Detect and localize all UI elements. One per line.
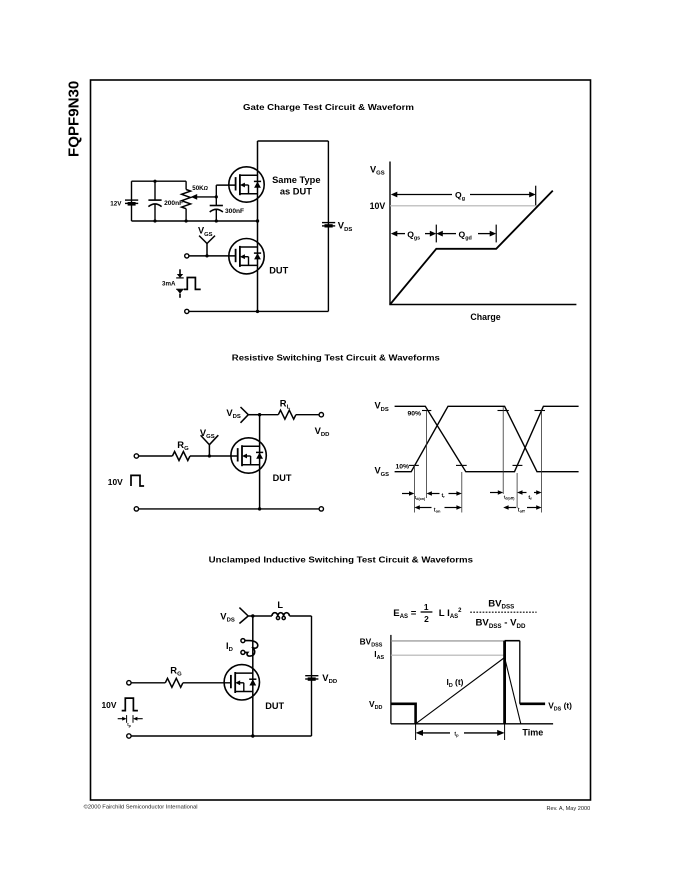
- footer revision: [547, 806, 591, 812]
- svg-text:Charge: Charge: [470, 312, 500, 322]
- svg-text:10%: 10%: [396, 464, 410, 471]
- svg-text:VGS: VGS: [375, 466, 390, 478]
- probe VGS s2: [201, 435, 219, 456]
- part number FQPF9N30: [65, 81, 82, 157]
- svg-text:VDS: VDS: [220, 610, 235, 623]
- battery VDD s3: [305, 676, 318, 681]
- trace pulse right drop s3: [519, 641, 521, 704]
- svg-text:IAS: IAS: [374, 649, 384, 661]
- label VGS: [198, 226, 213, 238]
- svg-text:VDS (t): VDS (t): [548, 700, 572, 712]
- svg-text:Gate Charge Test Circuit & Wav: Gate Charge Test Circuit & Waveform: [243, 102, 414, 112]
- label td(off): [504, 494, 515, 500]
- wire top s3: [253, 615, 312, 617]
- trace VDS s2: [395, 406, 579, 471]
- dimension td(off): [490, 490, 503, 495]
- terminal bottom s3: [127, 734, 131, 738]
- capacitor 300nF: [210, 185, 223, 221]
- svg-text:td(off): td(off): [504, 494, 515, 500]
- node bottom s2: [258, 507, 261, 510]
- wire right rail s3: [311, 616, 313, 736]
- label 200nF: [164, 200, 183, 207]
- svg-text:©2000 Fairchild Semiconductor: ©2000 Fairchild Semiconductor Internatio…: [84, 804, 198, 811]
- label tp pulse s3: [127, 722, 131, 728]
- terminal bottom right s2: [319, 507, 323, 511]
- node drain s2: [258, 413, 261, 416]
- label 300nF: [225, 208, 244, 215]
- dimension tr: [427, 491, 462, 496]
- svg-text:BVDSS: BVDSS: [360, 636, 383, 648]
- svg-text:90%: 90%: [408, 410, 422, 417]
- ticks 90% level: [422, 410, 545, 412]
- transistor Q1 same type as DUT: [229, 167, 264, 202]
- dimension ton: [414, 505, 461, 510]
- label Same Type as DUT: [272, 175, 320, 196]
- svg-text:tf: tf: [528, 495, 532, 501]
- label Time s3: [522, 727, 543, 737]
- line BVDSS level: [391, 640, 505, 642]
- svg-text:10V: 10V: [370, 201, 386, 211]
- svg-text:VDS: VDS: [226, 407, 241, 420]
- label ton: [434, 507, 441, 513]
- svg-text:2: 2: [424, 614, 429, 624]
- label VGS axis: [370, 165, 385, 177]
- label VDS s3: [220, 610, 235, 623]
- nodes on bottom rail: [153, 219, 259, 222]
- label ID s3: [226, 641, 233, 653]
- SECTION 3 TITLE: [209, 555, 474, 565]
- dimension tp pulse s3: [118, 715, 143, 723]
- wire bottom rail s3: [131, 735, 311, 737]
- svg-text:Qgs: Qgs: [407, 229, 420, 241]
- node VDS s3: [251, 614, 254, 617]
- svg-text:DUT: DUT: [269, 266, 288, 276]
- svg-text:Same Type: Same Type: [272, 175, 320, 185]
- dimension Qg: [391, 186, 536, 206]
- svg-text:10V: 10V: [102, 700, 117, 710]
- label td(on): [415, 495, 426, 501]
- wire 12V branch: [131, 181, 133, 221]
- label DUT s2: [273, 473, 292, 483]
- svg-text:Qg: Qg: [455, 190, 465, 202]
- node bottom rail: [256, 310, 259, 313]
- node top rail / 200nF: [153, 180, 156, 183]
- svg-text:Rev. A, May 2000: Rev. A, May 2000: [547, 806, 591, 812]
- wire gate lead upper MOSFET: [216, 184, 235, 186]
- transistor DUT: [229, 239, 264, 274]
- axis Y s3: [390, 635, 392, 724]
- svg-text:1: 1: [424, 602, 429, 612]
- svg-text:RG: RG: [170, 665, 182, 678]
- label Qgd: [459, 229, 472, 241]
- svg-text:Time: Time: [522, 727, 543, 737]
- curve gate charge: [390, 191, 553, 305]
- potentiometer 50K: [182, 181, 217, 221]
- wire bottom rail s2: [139, 508, 319, 510]
- svg-text:ID (t): ID (t): [447, 677, 464, 689]
- svg-text:BVDSS - VDD: BVDSS - VDD: [476, 618, 526, 630]
- probe VDS s3: [239, 608, 252, 624]
- svg-text:RL: RL: [280, 398, 291, 411]
- svg-text:Qgd: Qgd: [459, 229, 472, 241]
- label VDS(t) s3: [548, 700, 572, 712]
- axis Y gate charge: [389, 162, 391, 305]
- label ID(t) s3: [447, 677, 464, 689]
- svg-text:toff: toff: [518, 507, 526, 513]
- capacitor 200nF: [148, 181, 161, 221]
- label RG s3: [170, 665, 182, 678]
- svg-text:Unclamped Inductive Switching: Unclamped Inductive Switching Test Circu…: [209, 555, 474, 565]
- transistor DUT s3: [224, 665, 259, 700]
- svg-text:BVDSS: BVDSS: [488, 598, 514, 610]
- pulse symbol 3mA: [184, 278, 201, 290]
- svg-text:DUT: DUT: [265, 701, 284, 711]
- label DUT s3: [265, 701, 284, 711]
- wire left network bottom rail: [132, 220, 258, 222]
- label toff: [518, 507, 526, 513]
- resistor RL s2: [260, 410, 320, 419]
- dimension toff: [503, 505, 541, 510]
- svg-text:ton: ton: [434, 507, 441, 513]
- line 10V level: [390, 205, 538, 207]
- svg-text:tp: tp: [454, 731, 459, 737]
- dimension td(on): [402, 491, 414, 496]
- label VDS trace: [375, 401, 389, 413]
- svg-text:VDS: VDS: [338, 220, 353, 233]
- trace spike s3: [503, 641, 506, 724]
- label tf: [528, 495, 532, 501]
- terminal gate input s3: [127, 681, 131, 685]
- label RL s2: [280, 398, 291, 411]
- transistor DUT s2: [231, 438, 266, 473]
- current probe ID s3: [241, 639, 258, 657]
- dimension Qgs: [391, 225, 437, 243]
- axis X s3: [391, 723, 553, 725]
- line IAS level: [391, 654, 505, 656]
- reference verticals s2: [414, 407, 541, 513]
- svg-text:10V: 10V: [108, 477, 123, 487]
- svg-text:VDD: VDD: [369, 699, 382, 711]
- SECTION 2 TITLE: [232, 352, 440, 362]
- terminal bottom: [185, 309, 189, 313]
- footer copyright: [84, 804, 198, 811]
- label tr: [442, 493, 446, 499]
- label BVDSS s3: [360, 636, 383, 648]
- label 10%: [396, 464, 410, 471]
- trace ID ramp s3: [416, 658, 505, 724]
- fraction bar 1/2: [421, 611, 433, 613]
- wire main vertical rail: [257, 141, 259, 311]
- SECTION 1 TITLE: [243, 102, 414, 112]
- trace VGS s2: [395, 406, 579, 471]
- trace ID fall s3: [505, 658, 521, 724]
- svg-text:td(on): td(on): [415, 495, 426, 501]
- dimension tf: [517, 490, 542, 495]
- label VDS battery: [338, 220, 353, 233]
- label Charge: [470, 312, 500, 322]
- svg-text:50KΩ: 50KΩ: [192, 185, 208, 192]
- label VDS s2: [226, 407, 241, 420]
- label DUT: [269, 266, 288, 276]
- svg-text:tp: tp: [127, 722, 131, 728]
- svg-text:L: L: [277, 600, 283, 610]
- svg-text:EAS =: EAS =: [393, 608, 416, 620]
- trace pulse top s3: [505, 640, 520, 642]
- label 10V s2: [108, 477, 123, 487]
- svg-text:300nF: 300nF: [225, 208, 244, 215]
- label VDD s2: [315, 425, 330, 438]
- svg-text:RG: RG: [177, 439, 189, 452]
- label 3mA: [162, 281, 176, 288]
- label 12V: [110, 200, 122, 207]
- svg-text:VGS: VGS: [370, 165, 385, 177]
- inductor L s3: [272, 613, 289, 620]
- label VGS trace: [375, 466, 390, 478]
- terminal bottom left s2: [134, 507, 138, 511]
- svg-text:VGS: VGS: [200, 427, 215, 440]
- terminal gate input s2: [134, 454, 138, 458]
- svg-text:Resistive Switching Test Circu: Resistive Switching Test Circuit & Wavef…: [232, 352, 440, 362]
- label VDD s3 axis: [369, 699, 382, 711]
- pulse symbol s2: [131, 475, 144, 486]
- axis X gate charge: [389, 304, 576, 306]
- ticks 10% level: [409, 464, 523, 466]
- svg-text:L IAS2: L IAS2: [439, 608, 462, 620]
- wire DUT gate: [189, 255, 236, 257]
- label L s3: [277, 600, 283, 610]
- wire drain rail s2: [259, 415, 261, 509]
- label 10V: [370, 201, 386, 211]
- node bottom s3: [251, 734, 254, 737]
- wire bottom: [189, 310, 328, 312]
- trace VDS(t) level s3: [520, 702, 545, 705]
- label IAS s3: [374, 649, 384, 661]
- battery VDS: [322, 223, 335, 228]
- svg-text:ID: ID: [226, 641, 233, 653]
- svg-text:VDS: VDS: [375, 401, 389, 413]
- label Qg: [455, 190, 465, 202]
- wire top rail: [258, 140, 329, 142]
- equation EAS: [393, 598, 526, 630]
- label VGS s2: [200, 427, 215, 440]
- svg-text:VDD: VDD: [315, 425, 330, 438]
- trace VDD step s3: [391, 704, 416, 724]
- svg-text:VDD: VDD: [322, 672, 337, 685]
- label 50K: [192, 185, 208, 192]
- svg-text:as DUT: as DUT: [280, 186, 312, 196]
- svg-text:12V: 12V: [110, 200, 122, 207]
- current source 3mA: [176, 269, 184, 298]
- resistor RG s3: [165, 678, 183, 687]
- wire gate s3: [131, 682, 231, 684]
- label VDD s3: [322, 672, 337, 685]
- resistor RG s2: [172, 452, 190, 461]
- terminal VDD s2: [319, 413, 323, 417]
- svg-text:DUT: DUT: [273, 473, 292, 483]
- probe VDS s2: [241, 407, 260, 423]
- svg-text:3mA: 3mA: [162, 281, 176, 288]
- battery 12V: [125, 200, 138, 206]
- node VGS junction: [205, 254, 208, 257]
- svg-text:200nF: 200nF: [164, 200, 183, 207]
- probe VGS: [199, 236, 215, 256]
- label Qgs: [407, 229, 420, 241]
- svg-text:tr: tr: [442, 493, 446, 499]
- terminal gate input: [185, 254, 189, 258]
- label 10V s3: [102, 700, 117, 710]
- label RG s2: [177, 439, 189, 452]
- node VGS junction s2: [208, 454, 211, 457]
- pulse symbol s3: [122, 698, 138, 711]
- label 90%: [408, 410, 422, 417]
- wire drain rail s3: [252, 616, 254, 736]
- wire left network top rail: [132, 180, 187, 182]
- dimension Qgd: [436, 225, 496, 243]
- wire right rail: [327, 141, 329, 311]
- wire gate s2: [139, 455, 238, 457]
- svg-text:FQPF9N30: FQPF9N30: [65, 81, 82, 157]
- label tp s3: [454, 731, 459, 737]
- node wiper junction: [215, 195, 218, 198]
- dimension tp s3: [416, 724, 505, 740]
- fraction bar dashed: [470, 611, 536, 613]
